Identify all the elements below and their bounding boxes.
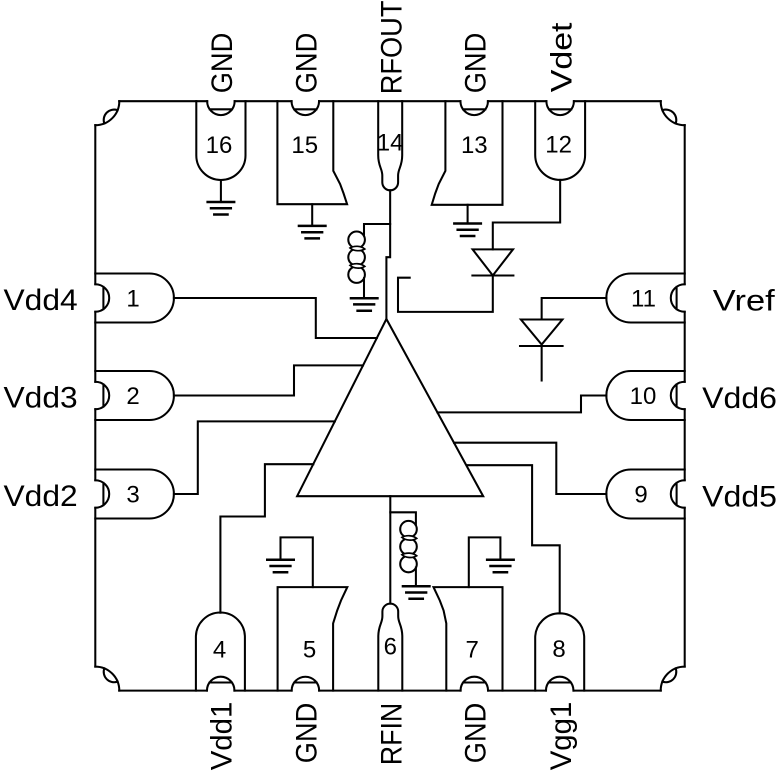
svg-text:10: 10 [630, 383, 657, 410]
inductor L2 (RFIN bias choke) [400, 521, 417, 538]
svg-text:9: 9 [634, 482, 647, 509]
pad pin 15 (GND) [277, 101, 347, 204]
package corner chamfer top-right [661, 101, 685, 125]
pad pin 7 (GND) [434, 587, 503, 691]
svg-text:RFOUT: RFOUT [376, 1, 409, 95]
inductor L1 (RFOUT bias choke) [348, 232, 365, 249]
wire pin 16 to ground [220, 180, 222, 202]
svg-text:5: 5 [303, 637, 316, 664]
edge via notch pin 10 [671, 382, 685, 410]
svg-text:GND: GND [291, 33, 324, 94]
wire inductor L2 to ground [415, 568, 417, 587]
edge via notch pin 13 [460, 101, 488, 115]
pad pin 16 (GND) [196, 101, 245, 180]
wire amplifier input to pin 6 [389, 496, 391, 603]
wire inductor L1 to ground [363, 278, 365, 298]
wire pin 1 (Vdd4) to amplifier [174, 298, 377, 338]
package corner index lens bottom-left [104, 668, 118, 682]
edge via notch pin 2 [95, 382, 109, 410]
package corner chamfer bottom-left [95, 667, 119, 691]
pad pin 2 [95, 371, 174, 420]
edge via notch pin 12 [546, 101, 574, 115]
svg-text:16: 16 [206, 132, 233, 159]
svg-text:Vdd5: Vdd5 [702, 480, 776, 513]
wire pin 13 to ground [467, 205, 469, 224]
edge via notch pin 3 [95, 480, 109, 508]
wire RFOUT tap to inductor L1 [364, 224, 390, 236]
package corner index lens top-left [104, 110, 118, 124]
pad pin 11 [606, 274, 684, 323]
wire pin 7 ground stub [469, 537, 501, 587]
ground under inductor L1 [351, 298, 378, 311]
package body outline (right edge) [684, 125, 686, 666]
svg-text:13: 13 [461, 132, 488, 159]
svg-text:Vref: Vref [713, 284, 776, 317]
svg-text:GND: GND [460, 703, 493, 764]
svg-text:Vdd6: Vdd6 [702, 382, 776, 415]
edge via notch pin 4 [207, 677, 235, 691]
svg-text:1: 1 [126, 286, 139, 313]
svg-text:Vgg1: Vgg1 [545, 702, 578, 771]
ground near pin 5 [267, 560, 294, 573]
op-amp U1 (amplifier triangle) [297, 319, 483, 496]
package body outline (top edge) [119, 100, 661, 102]
ground under pin 16 [208, 202, 235, 215]
wire RFIN tap to inductor L2 [390, 512, 416, 525]
svg-text:7: 7 [466, 637, 479, 664]
pad pin 8 (Vgg1) [535, 613, 584, 690]
svg-text:6: 6 [384, 634, 397, 661]
wire pin 15 to ground [311, 204, 313, 226]
package body outline (bottom edge) [119, 690, 661, 692]
svg-text:2: 2 [126, 383, 139, 410]
pad pin 9 [606, 470, 684, 519]
ground near pin 7 [487, 560, 514, 573]
diode D2 (reference) [520, 320, 563, 347]
edge via notch pin 11 [671, 284, 685, 312]
svg-text:Vdd3: Vdd3 [4, 382, 78, 415]
svg-text:Vdd2: Vdd2 [4, 480, 78, 513]
pad pin 5 (GND) [278, 587, 348, 691]
ground under pin 15 [299, 226, 326, 239]
svg-text:RFIN: RFIN [376, 703, 409, 766]
svg-text:Vdd4: Vdd4 [4, 284, 78, 317]
package corner chamfer bottom-right [661, 667, 685, 691]
package corner chamfer top-left [95, 101, 119, 125]
wire diode D2 cathode stub [541, 346, 543, 381]
wire pin 10 (Vdd6) to amplifier [437, 396, 606, 413]
pad pin 6 (RFIN) [378, 604, 402, 691]
ground under pin 13 [454, 224, 481, 237]
edge via notch pin 8 [546, 677, 574, 691]
wire pin 8 (Vgg1) to amplifier [467, 465, 560, 613]
wire pin 5 ground stub [281, 537, 313, 587]
diode D1 (detector) [472, 249, 513, 275]
svg-text:Vdd1: Vdd1 [206, 702, 239, 771]
pad pin 14 (RFOUT) [378, 101, 402, 190]
pad pin 13 (GND) [432, 101, 503, 205]
pad pin 12 (Vdet) [535, 101, 585, 180]
package corner index lens bottom-right [662, 668, 676, 682]
wire pin 11 to diode D2 [542, 298, 607, 320]
svg-text:11: 11 [631, 286, 656, 313]
wire pin 3 (Vdd2) to amplifier [174, 421, 335, 494]
wire pin 14 to node jog [386, 190, 390, 319]
edge via notch pin 15 [292, 101, 320, 115]
svg-text:4: 4 [213, 637, 226, 664]
pad pin 3 [95, 470, 174, 519]
pad pin 1 [95, 274, 174, 323]
wire pin 4 (Vdd1) to amplifier [220, 464, 313, 613]
edge via notch pin 1 [95, 284, 109, 312]
pad pin 4 (Vdd1) [196, 613, 245, 691]
svg-text:8: 8 [552, 636, 565, 663]
wire pin 12 to diode D1 [493, 180, 560, 250]
svg-text:GND: GND [206, 33, 239, 94]
svg-text:GND: GND [291, 703, 324, 764]
svg-text:12: 12 [545, 131, 572, 158]
wire pin 2 (Vdd3) to amplifier [174, 365, 363, 395]
edge via notch pin 5 [292, 677, 320, 691]
edge via notch pin 7 [461, 677, 489, 691]
svg-text:15: 15 [291, 132, 318, 159]
wire pin 9 (Vdd5) to amplifier [454, 443, 606, 494]
edge via notch pin 16 [207, 101, 235, 115]
svg-text:3: 3 [126, 482, 139, 509]
svg-text:GND: GND [460, 33, 493, 94]
ground under inductor L2 [403, 586, 430, 599]
svg-text:14: 14 [377, 129, 404, 156]
package corner index lens top-right [662, 110, 676, 124]
edge via notch pin 9 [671, 480, 685, 508]
svg-text:Vdet: Vdet [545, 22, 578, 93]
pad pin 10 [606, 371, 684, 420]
wire diode D1 to coupler stub [398, 276, 493, 312]
package body outline (left edge) [94, 125, 96, 666]
